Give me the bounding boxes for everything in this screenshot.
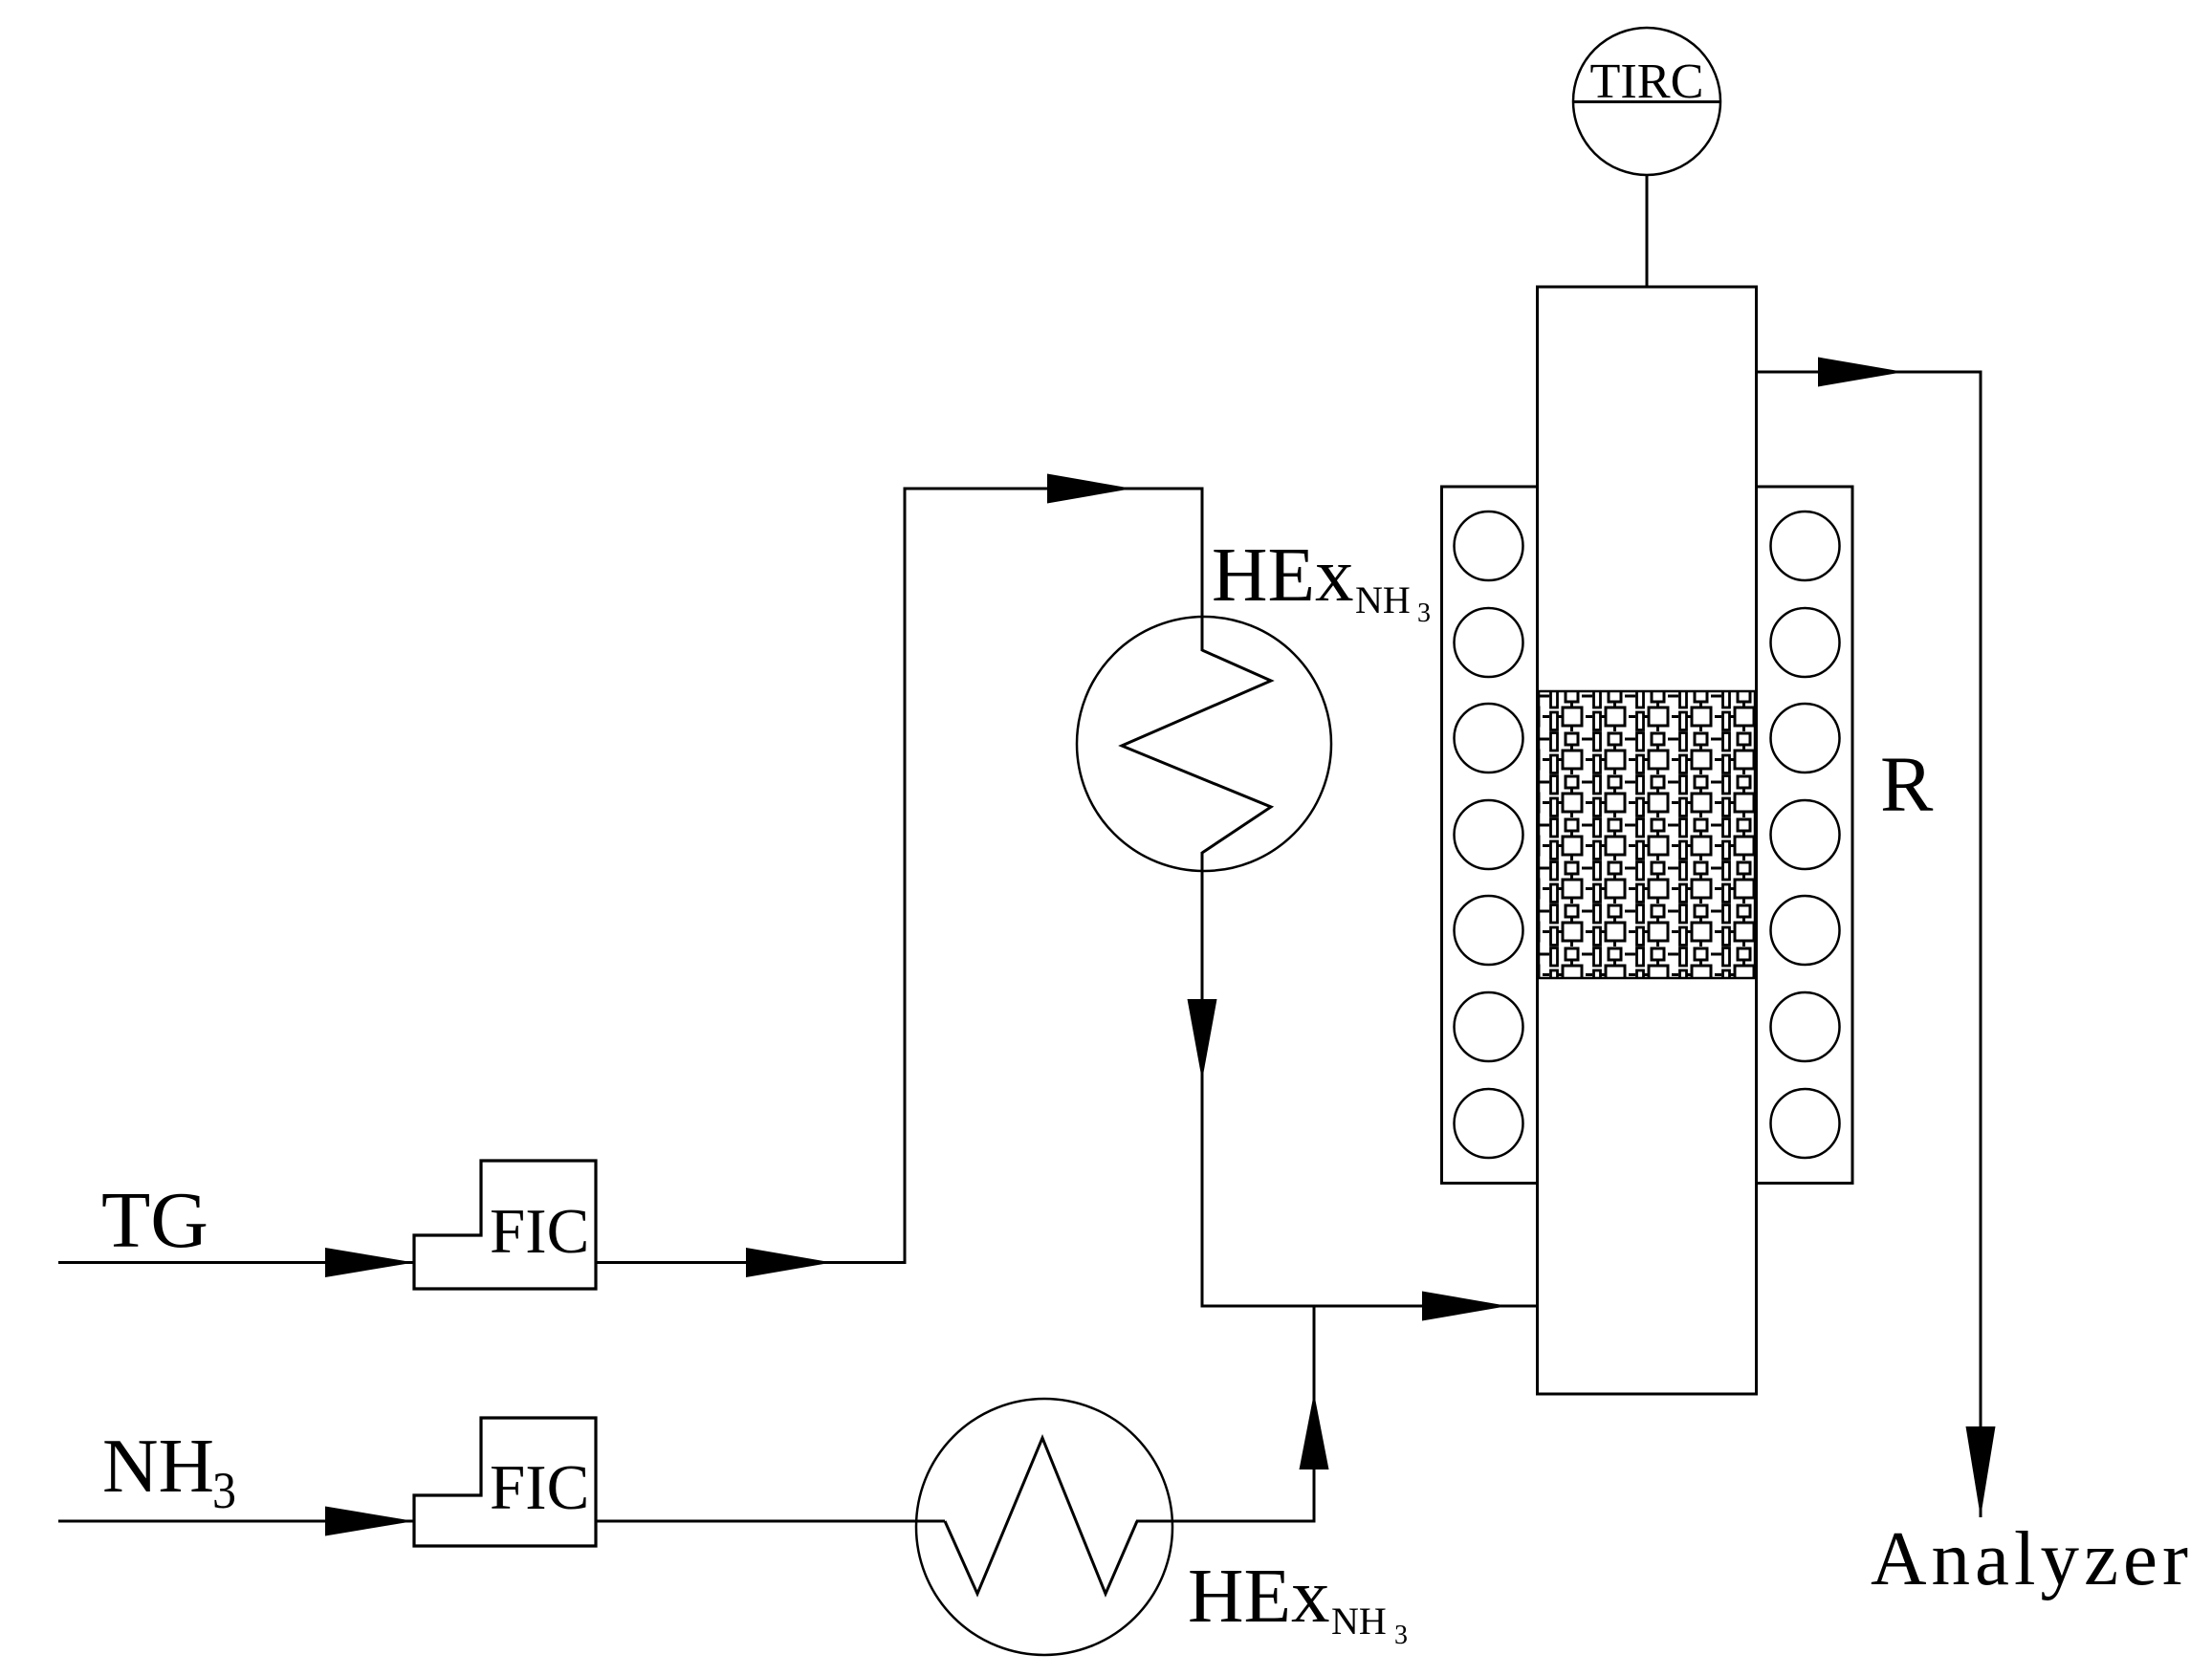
svg-text:TG: TG	[101, 1176, 208, 1265]
furnace box of reactor R	[1442, 487, 1853, 1184]
arrow HEx upper outlet down	[1188, 999, 1217, 1080]
arrow junction riser up	[1300, 1393, 1329, 1469]
svg-text:3: 3	[1394, 1621, 1408, 1650]
wire collector run to reactor inlet	[1201, 1305, 1538, 1308]
heater coil circles left column	[1455, 512, 1523, 1158]
svg-text:R: R	[1880, 740, 1934, 828]
arrow reactor outlet	[1818, 358, 1904, 387]
svg-text:3: 3	[212, 1462, 236, 1519]
heater coil circles right column	[1771, 512, 1840, 1158]
arrow TG feed	[325, 1248, 414, 1277]
heat exchanger HEx NH3 lower circle	[916, 1399, 1172, 1655]
HEx lower coil zigzag	[945, 1438, 1137, 1594]
HEx upper coil zigzag	[1122, 650, 1271, 853]
wire TG riser	[904, 488, 907, 1265]
svg-text:NH: NH	[102, 1423, 214, 1509]
wire analyzer drop	[1980, 372, 1982, 1517]
wire TIRC stem	[1646, 175, 1649, 289]
svg-text:3: 3	[1417, 599, 1431, 628]
arrow FIC1 outlet	[746, 1248, 832, 1277]
wire HEx upper inlet drop	[1201, 488, 1204, 652]
wire HEx upper outlet drop	[1201, 852, 1204, 1308]
wire NH3 feed line	[58, 1520, 945, 1523]
heat exchanger HEx NH3 upper circle	[1077, 617, 1331, 871]
flow controller FIC1 box	[414, 1161, 596, 1289]
arrow analyzer down	[1966, 1426, 1996, 1517]
arrow NH3 feed	[325, 1507, 414, 1536]
svg-text:FIC: FIC	[490, 1196, 589, 1267]
flow controller FIC2 box	[414, 1418, 596, 1546]
TIRC divider line	[1574, 100, 1719, 103]
svg-text:TIRC: TIRC	[1590, 54, 1704, 109]
catalyst bed inside reactor	[1539, 691, 1755, 978]
wire TG feed line	[58, 1261, 415, 1264]
svg-text:NH: NH	[1331, 1600, 1387, 1643]
arrow TG top run	[1047, 474, 1132, 504]
instrument TIRC circle	[1573, 28, 1720, 175]
svg-text:Analyzer: Analyzer	[1871, 1515, 2188, 1601]
wire reactor outlet run	[1757, 371, 1982, 374]
svg-text:HEx: HEx	[1188, 1553, 1329, 1639]
wire TG top run	[904, 488, 1204, 490]
arrow reactor inlet	[1422, 1292, 1508, 1321]
svg-text:FIC: FIC	[490, 1452, 589, 1523]
wire HEx lower outlet run	[1136, 1520, 1316, 1523]
svg-text:HEx: HEx	[1212, 532, 1353, 618]
wire junction riser	[1313, 1306, 1316, 1523]
wire FIC1 outlet run	[596, 1261, 905, 1264]
svg-text:NH: NH	[1355, 578, 1411, 621]
reactor tube R	[1538, 287, 1757, 1394]
